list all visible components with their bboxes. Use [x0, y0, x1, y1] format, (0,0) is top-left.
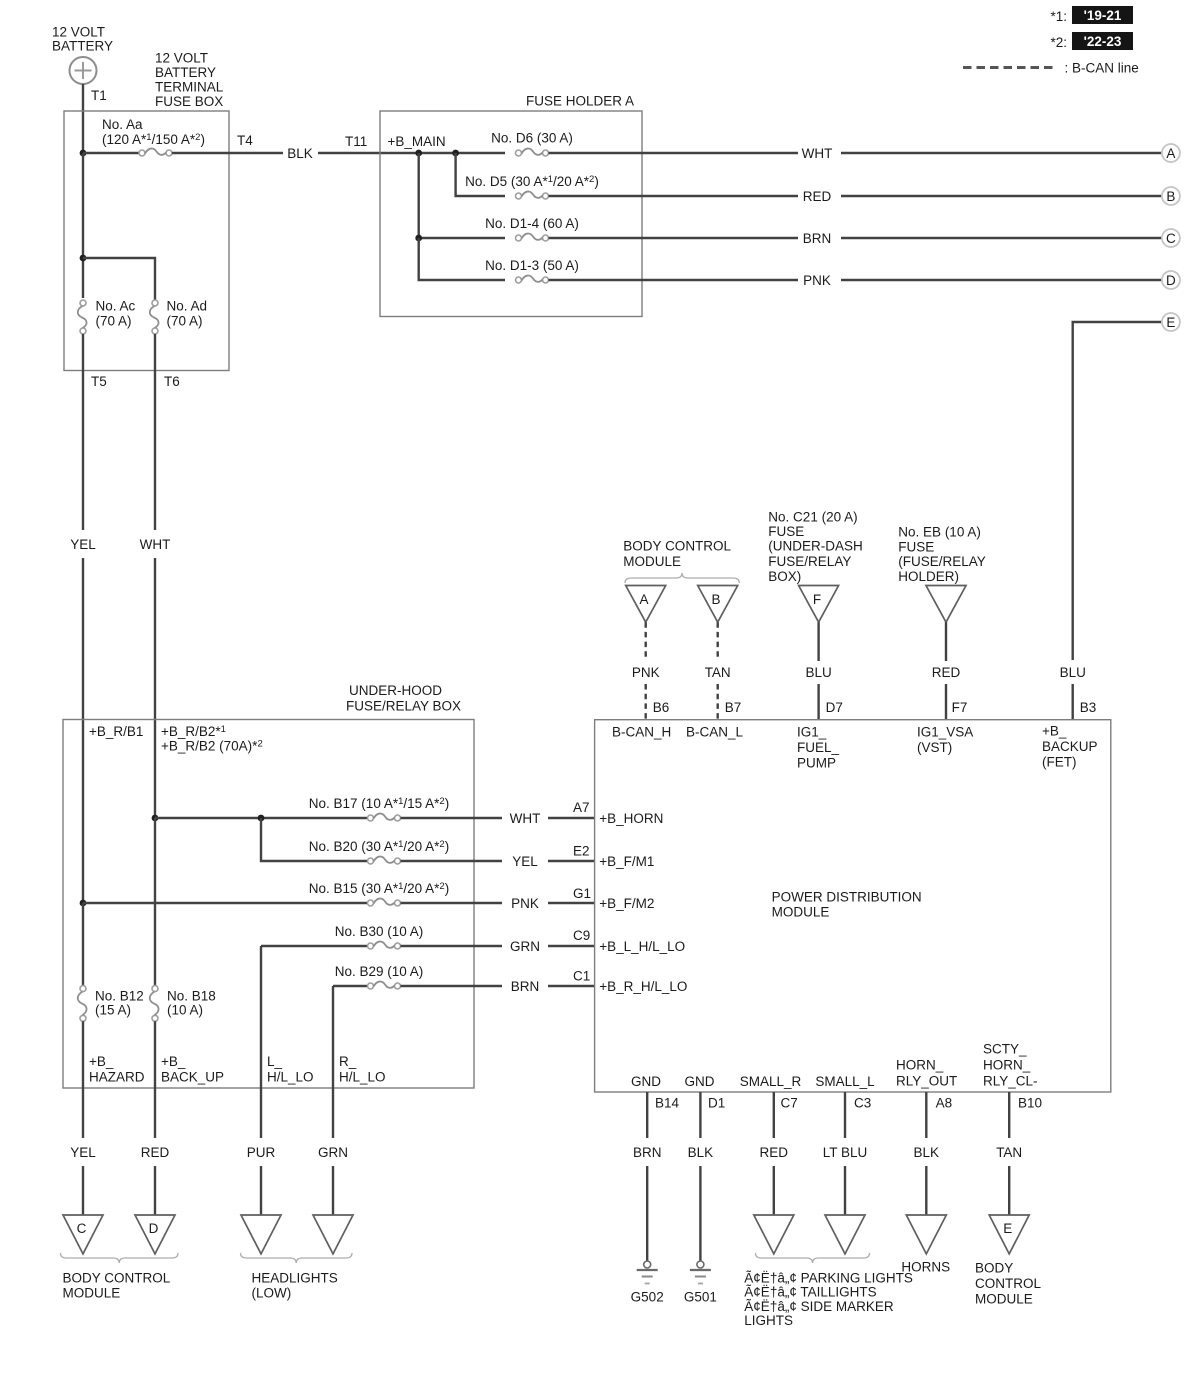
svg-text:HAZARD: HAZARD: [89, 1069, 145, 1084]
svg-text:*1:: *1:: [1051, 9, 1068, 24]
wire B-CAN_H dashed (upper): [645, 622, 647, 661]
connector horns: [906, 1215, 946, 1254]
wire D1-4 branch vertical: [419, 153, 505, 238]
legend black box '19-21: [1072, 6, 1133, 24]
connector E (body control module): [989, 1215, 1029, 1254]
connector parking lights right: [754, 1215, 794, 1254]
svg-text:BODY CONTROL: BODY CONTROL: [623, 539, 731, 554]
wire SCTY_HORN upper: [1008, 1092, 1010, 1138]
svg-text:HOLDER): HOLDER): [898, 569, 959, 584]
fuse B18: [150, 986, 159, 1022]
wire YEL to module: [548, 860, 595, 862]
wire left headlight below box: [260, 1088, 262, 1138]
svg-text:LIGHTS: LIGHTS: [744, 1313, 793, 1328]
wire TAN to connector E: [1008, 1166, 1010, 1215]
svg-text:TAN: TAN: [996, 1145, 1022, 1160]
svg-text:No. B12: No. B12: [95, 988, 144, 1003]
fuse D1-3: [516, 276, 549, 283]
svg-text:(FUSE/RELAY: (FUSE/RELAY: [898, 554, 986, 569]
fuse D6: [516, 149, 549, 156]
svg-text:BATTERY: BATTERY: [52, 38, 113, 53]
svg-text:T1: T1: [91, 88, 107, 103]
svg-text:E2: E2: [573, 843, 590, 858]
svg-text:MODULE: MODULE: [975, 1291, 1033, 1306]
svg-text:MODULE: MODULE: [772, 904, 830, 919]
svg-text:SCTY_: SCTY_: [983, 1041, 1027, 1056]
fuse D5: [516, 192, 549, 199]
svg-text:C1: C1: [573, 968, 590, 983]
svg-text:No. B29 (10 A): No. B29 (10 A): [335, 964, 424, 979]
svg-text:No. D6 (30 A): No. D6 (30 A): [491, 131, 573, 146]
svg-text:B14: B14: [655, 1095, 680, 1110]
svg-text:YEL: YEL: [70, 537, 96, 552]
wire backup below box: [154, 1088, 156, 1138]
svg-text:: B-CAN line: : B-CAN line: [1065, 60, 1139, 75]
svg-text:YEL: YEL: [512, 854, 538, 869]
svg-text:A7: A7: [573, 800, 590, 815]
svg-text:BLK: BLK: [914, 1145, 940, 1160]
svg-text:(UNDER-DASH: (UNDER-DASH: [768, 539, 863, 554]
svg-text:L_: L_: [267, 1054, 283, 1069]
svg-text:H/L_LO: H/L_LO: [339, 1069, 386, 1084]
wire T6 down to WHT: [154, 334, 156, 530]
wire WHT to module: [548, 817, 595, 819]
terminal D: [1162, 271, 1180, 289]
wire BLK to ground G501: [699, 1166, 701, 1261]
svg-text:C: C: [77, 1221, 87, 1236]
svg-text:No. B17 (10 A*1/15 A*2): No. B17 (10 A*1/15 A*2): [309, 796, 449, 811]
svg-text:(FET): (FET): [1042, 755, 1077, 770]
svg-text:(VST): (VST): [917, 740, 952, 755]
wire backup riser lower: [1071, 684, 1073, 720]
svg-text:B-CAN_H: B-CAN_H: [612, 724, 671, 739]
svg-text:GRN: GRN: [318, 1145, 348, 1160]
svg-text:FUSE: FUSE: [768, 524, 804, 539]
wire B-CAN_L dashed (upper): [717, 622, 719, 661]
svg-text:PNK: PNK: [511, 896, 539, 911]
svg-text:(70 A): (70 A): [96, 313, 132, 328]
wire R_H/L_LO column: [332, 986, 334, 1088]
wire battery to junction T1: [82, 84, 84, 153]
wire BRN to terminal C: [841, 237, 1162, 239]
svg-text:YEL: YEL: [70, 1145, 96, 1160]
svg-text:G1: G1: [573, 886, 591, 901]
svg-text:+B_F/M1: +B_F/M1: [599, 854, 654, 869]
connector left headlight: [241, 1215, 281, 1254]
terminal E: [1162, 313, 1180, 331]
svg-text:A: A: [639, 592, 648, 607]
svg-text:No. Ac: No. Ac: [96, 298, 136, 313]
svg-text:D: D: [1166, 273, 1176, 288]
svg-text:Ã¢Ë†â„¢ TAILLIGHTS: Ã¢Ë†â„¢ TAILLIGHTS: [744, 1285, 876, 1300]
svg-text:LT BLU: LT BLU: [823, 1145, 868, 1160]
wire YEL to under-hood box: [82, 558, 84, 903]
wire B-CAN_H dashed (lower): [645, 684, 647, 720]
svg-text:*2:: *2:: [1051, 35, 1068, 50]
wire fuse D6 to WHT: [549, 152, 799, 154]
svg-text:UNDER-HOOD: UNDER-HOOD: [349, 683, 442, 698]
svg-text:RLY_CL-: RLY_CL-: [983, 1073, 1038, 1088]
wire fuse D1-4 to BRN: [549, 237, 799, 239]
svg-text:FUSE/RELAY BOX: FUSE/RELAY BOX: [346, 699, 461, 714]
wire PUR to connector: [260, 1166, 262, 1215]
svg-text:12 VOLT: 12 VOLT: [52, 24, 105, 39]
svg-text:No. Aa: No. Aa: [102, 117, 143, 132]
svg-text:No. B15 (30 A*1/20 A*2): No. B15 (30 A*1/20 A*2): [309, 881, 449, 896]
brace body control module (bottom left): [61, 1253, 179, 1263]
svg-text:+B_L_H/L_LO: +B_L_H/L_LO: [599, 939, 685, 954]
svg-text:F7: F7: [952, 700, 968, 715]
ground G502: [631, 1261, 664, 1304]
wire IG1_FUEL_PUMP (lower): [817, 684, 819, 720]
connector D (body control module): [135, 1215, 175, 1254]
svg-text:+B_: +B_: [1042, 723, 1067, 738]
svg-text:No. EB (10 A): No. EB (10 A): [898, 525, 981, 540]
svg-text:BOX): BOX): [768, 569, 801, 584]
junction node on +B_MAIN (to D5): [452, 150, 459, 157]
svg-text:No. B18: No. B18: [167, 988, 216, 1003]
wire B20 branch vertical: [261, 818, 371, 861]
svg-text:C7: C7: [781, 1095, 798, 1110]
wire BLK to horns connector: [925, 1166, 927, 1215]
svg-text:HORNS: HORNS: [901, 1260, 950, 1275]
svg-text:WHT: WHT: [802, 146, 833, 161]
wire backup column to fuse B18: [154, 818, 156, 986]
svg-text:(120 A*1/150 A*2): (120 A*1/150 A*2): [102, 132, 205, 147]
junction node B20 branch: [258, 815, 265, 822]
svg-text:D7: D7: [826, 700, 843, 715]
wire fuse B18 to box bottom: [154, 1021, 156, 1088]
svg-text:(LOW): (LOW): [252, 1286, 292, 1301]
svg-text:No. D5 (30 A*1/20 A*2): No. D5 (30 A*1/20 A*2): [465, 174, 599, 189]
svg-text:T11: T11: [345, 134, 367, 149]
fuse B12: [78, 986, 87, 1022]
fuse holder A box: [380, 111, 642, 317]
wire IG1_FUEL_PUMP (upper): [817, 622, 819, 661]
connector fuse/relay holder: [926, 586, 966, 623]
terminal A: [1162, 144, 1180, 162]
svg-text:D: D: [149, 1221, 159, 1236]
svg-text:BRN: BRN: [511, 979, 540, 994]
wire to fuse Aa: [83, 152, 139, 154]
wire BRN to ground G502: [646, 1166, 648, 1261]
svg-text:+B_R/B2 (70A)*2: +B_R/B2 (70A)*2: [161, 738, 263, 753]
svg-text:E: E: [1166, 315, 1175, 330]
fuse B15: [368, 899, 401, 906]
svg-text:BODY: BODY: [975, 1261, 1013, 1276]
svg-text:RED: RED: [803, 189, 832, 204]
fuse B20: [368, 857, 401, 864]
node junction battery/Aa: [80, 150, 87, 157]
svg-text:RED: RED: [141, 1145, 170, 1160]
svg-text:T4: T4: [237, 133, 253, 148]
wire fuse B15 to PNK: [401, 902, 503, 904]
wire GND B14 upper: [646, 1092, 648, 1138]
svg-text:TERMINAL: TERMINAL: [155, 79, 224, 94]
wire hazard below box: [82, 1088, 84, 1138]
wire D5 branch vertical: [456, 153, 505, 196]
junction node branch to Ad: [80, 255, 87, 262]
svg-text:BACK_UP: BACK_UP: [161, 1069, 224, 1084]
wire IG1_VSA (upper): [945, 622, 947, 661]
svg-text:B3: B3: [1080, 700, 1097, 715]
svg-text:C3: C3: [854, 1095, 871, 1110]
svg-text:+B_R_H/L_LO: +B_R_H/L_LO: [599, 979, 687, 994]
svg-text:SMALL_R: SMALL_R: [740, 1074, 802, 1089]
wire IG1_VSA (lower): [945, 684, 947, 720]
wire PNK to module: [548, 902, 595, 904]
svg-text:IG1_: IG1_: [797, 724, 827, 739]
junction node D1-4: [415, 235, 422, 242]
under-hood fuse/relay box: [63, 720, 474, 1089]
legend black box '22-23: [1072, 32, 1133, 50]
brace parking lights: [756, 1253, 870, 1263]
svg-text:SMALL_L: SMALL_L: [815, 1074, 875, 1089]
svg-text:B-CAN_L: B-CAN_L: [686, 724, 744, 739]
svg-text:RED: RED: [932, 665, 961, 680]
svg-text:BODY CONTROL: BODY CONTROL: [63, 1271, 171, 1286]
svg-text:E: E: [1003, 1221, 1012, 1236]
svg-text:No. D1-4 (60 A): No. D1-4 (60 A): [485, 216, 579, 231]
svg-text:BATTERY: BATTERY: [155, 65, 216, 80]
fuse Aa: [139, 149, 172, 156]
wire RED to connector D: [154, 1166, 156, 1215]
svg-text:+B_MAIN: +B_MAIN: [388, 134, 446, 149]
wire GRN to connector: [332, 1166, 334, 1215]
connector F (under-dash fuse/relay box): [799, 586, 839, 623]
svg-text:No. B20 (30 A*1/20 A*2): No. B20 (30 A*1/20 A*2): [309, 839, 449, 854]
svg-text:FUEL_: FUEL_: [797, 740, 840, 755]
wire right headlight below box: [332, 1088, 334, 1138]
connector A (body control module): [626, 586, 666, 623]
svg-text:+B_HORN: +B_HORN: [599, 811, 663, 826]
svg-text:+B_R/B1: +B_R/B1: [89, 724, 143, 739]
svg-text:GRN: GRN: [510, 939, 540, 954]
svg-text:Ã¢Ë†â„¢ PARKING LIGHTS: Ã¢Ë†â„¢ PARKING LIGHTS: [744, 1271, 913, 1286]
svg-text:FUSE/RELAY: FUSE/RELAY: [768, 554, 851, 569]
connector parking lights left: [825, 1215, 865, 1254]
svg-text:'19-21: '19-21: [1084, 8, 1122, 23]
svg-text:C: C: [1166, 231, 1176, 246]
wire fuse B17 to WHT: [401, 817, 503, 819]
junction node on +B_MAIN (to D1-4/D1-3): [415, 150, 422, 157]
wire fuse D5 to RED: [549, 195, 799, 197]
wire GRN to module: [548, 945, 595, 947]
battery BT1 (12 volt battery symbol): [70, 57, 97, 84]
svg-text:T5: T5: [91, 374, 107, 389]
wire SMALL_L upper: [844, 1092, 846, 1138]
fuse B17: [368, 814, 401, 821]
svg-text:+B_R/B2*1: +B_R/B2*1: [161, 724, 226, 739]
power distribution module box: [595, 720, 1111, 1092]
svg-text:MODULE: MODULE: [63, 1286, 121, 1301]
svg-text:No. Ad: No. Ad: [167, 298, 208, 313]
wire fuse B29 to BRN: [401, 985, 503, 987]
wire BRN to module: [548, 985, 595, 987]
svg-text:IG1_VSA: IG1_VSA: [917, 724, 973, 739]
svg-text:BLK: BLK: [688, 1145, 714, 1160]
svg-text:HEADLIGHTS: HEADLIGHTS: [252, 1271, 338, 1286]
svg-text:A: A: [1166, 146, 1175, 161]
svg-text:FUSE HOLDER A: FUSE HOLDER A: [526, 93, 634, 108]
wire hazard column to fuse B12: [82, 903, 84, 986]
svg-text:F: F: [813, 592, 821, 607]
wire branch to second fuse column: [83, 258, 155, 303]
svg-text:B: B: [711, 592, 720, 607]
wire T5 down to YEL: [82, 334, 84, 530]
wire D1-3 branch vertical: [419, 238, 505, 280]
svg-text:FUSE: FUSE: [898, 540, 934, 555]
svg-text:H/L_LO: H/L_LO: [267, 1069, 314, 1084]
fuse Ad: [150, 300, 159, 334]
svg-text:B7: B7: [725, 700, 742, 715]
svg-text:BLU: BLU: [805, 665, 831, 680]
svg-text:D1: D1: [708, 1095, 725, 1110]
svg-text:TAN: TAN: [705, 665, 731, 680]
svg-text:WHT: WHT: [510, 811, 541, 826]
wire LT BLU to connector: [844, 1166, 846, 1215]
wire fuse D1-3 to PNK: [549, 279, 799, 281]
wire BLK to fuse holder A: [318, 152, 505, 154]
svg-text:BRN: BRN: [803, 231, 832, 246]
svg-text:+B_F/M2: +B_F/M2: [599, 896, 654, 911]
svg-text:(70 A): (70 A): [167, 313, 203, 328]
ground G501: [684, 1261, 717, 1304]
wire fuse B20 to YEL: [401, 860, 503, 862]
wire RED to connector: [773, 1166, 775, 1215]
svg-text:RLY_OUT: RLY_OUT: [896, 1074, 957, 1089]
svg-text:No. D1-3 (50 A): No. D1-3 (50 A): [485, 258, 579, 273]
svg-text:No. B30 (10 A): No. B30 (10 A): [335, 924, 424, 939]
wire B-CAN_L dashed (lower): [717, 684, 719, 720]
svg-text:A8: A8: [936, 1095, 953, 1110]
svg-text:BLK: BLK: [287, 146, 313, 161]
svg-text:GND: GND: [685, 1074, 715, 1089]
terminal C: [1162, 229, 1180, 247]
fuse B29: [368, 982, 401, 989]
svg-text:CONTROL: CONTROL: [975, 1276, 1041, 1291]
svg-text:RED: RED: [760, 1145, 789, 1160]
svg-text:HORN_: HORN_: [896, 1057, 944, 1072]
svg-text:(10 A): (10 A): [167, 1002, 203, 1017]
fuse D1-4: [516, 234, 549, 241]
connector B (body control module): [698, 586, 738, 623]
wire PNK to terminal D: [841, 279, 1162, 281]
svg-text:12 VOLT: 12 VOLT: [155, 50, 208, 65]
junction node B17 row: [152, 815, 159, 822]
terminal B: [1162, 187, 1180, 205]
svg-text:+B_: +B_: [161, 1054, 186, 1069]
svg-text:G501: G501: [684, 1289, 717, 1304]
wire battery trunk down (left): [82, 153, 84, 298]
wire YEL to connector C: [82, 1166, 84, 1215]
wire fuse B30 to GRN: [401, 945, 503, 947]
svg-text:B6: B6: [653, 700, 670, 715]
wire B15 row: [83, 902, 371, 904]
connector right headlight: [313, 1215, 353, 1254]
wire WHT to terminal A: [841, 152, 1162, 154]
svg-text:PNK: PNK: [803, 273, 831, 288]
svg-text:MODULE: MODULE: [623, 554, 681, 569]
svg-text:BLU: BLU: [1060, 665, 1086, 680]
legend B-CAN dashed line: [963, 66, 1057, 69]
svg-text:T6: T6: [164, 374, 180, 389]
svg-text:BRN: BRN: [633, 1145, 662, 1160]
wire +B_BACKUP riser to terminal E: [1073, 322, 1162, 660]
svg-text:PUMP: PUMP: [797, 755, 836, 770]
wire RED to terminal B: [841, 195, 1162, 197]
wire fuse Aa to T4 to BLK: [172, 152, 283, 154]
svg-text:POWER DISTRIBUTION: POWER DISTRIBUTION: [772, 889, 922, 904]
12 volt battery terminal fuse box: [64, 111, 229, 371]
junction node B15 row: [80, 900, 87, 907]
wire B17 row: [155, 817, 371, 819]
connector C (body control module): [63, 1215, 103, 1254]
svg-text:GND: GND: [631, 1074, 661, 1089]
wire SMALL_R upper: [773, 1092, 775, 1138]
svg-text:+B_: +B_: [89, 1054, 114, 1069]
svg-text:No. C21 (20 A): No. C21 (20 A): [768, 510, 857, 525]
brace headlights: [241, 1253, 353, 1263]
svg-text:B10: B10: [1018, 1095, 1042, 1110]
svg-text:HORN_: HORN_: [983, 1057, 1031, 1072]
svg-text:PNK: PNK: [632, 665, 660, 680]
svg-text:C9: C9: [573, 928, 590, 943]
wire WHT to under-hood box: [154, 558, 156, 818]
brace over connectors A and B: [625, 573, 739, 583]
wire B29 row: [333, 985, 371, 987]
svg-text:G502: G502: [631, 1289, 664, 1304]
wire fuse B12 to box bottom: [82, 1021, 84, 1088]
fuse B30: [368, 942, 401, 949]
svg-text:PUR: PUR: [247, 1145, 276, 1160]
svg-text:FUSE BOX: FUSE BOX: [155, 94, 223, 109]
svg-text:WHT: WHT: [140, 537, 171, 552]
wire GND D1 upper: [699, 1092, 701, 1138]
wire B30 row: [261, 945, 371, 947]
svg-text:BACKUP: BACKUP: [1042, 739, 1098, 754]
wire L_H/L_LO column: [260, 946, 262, 1088]
fuse Ac: [78, 300, 87, 334]
svg-text:B: B: [1166, 189, 1175, 204]
svg-text:R_: R_: [339, 1054, 357, 1069]
svg-text:(15 A): (15 A): [95, 1002, 131, 1017]
wire HORN_RLY_OUT upper: [925, 1092, 927, 1138]
svg-text:'22-23: '22-23: [1084, 34, 1122, 49]
